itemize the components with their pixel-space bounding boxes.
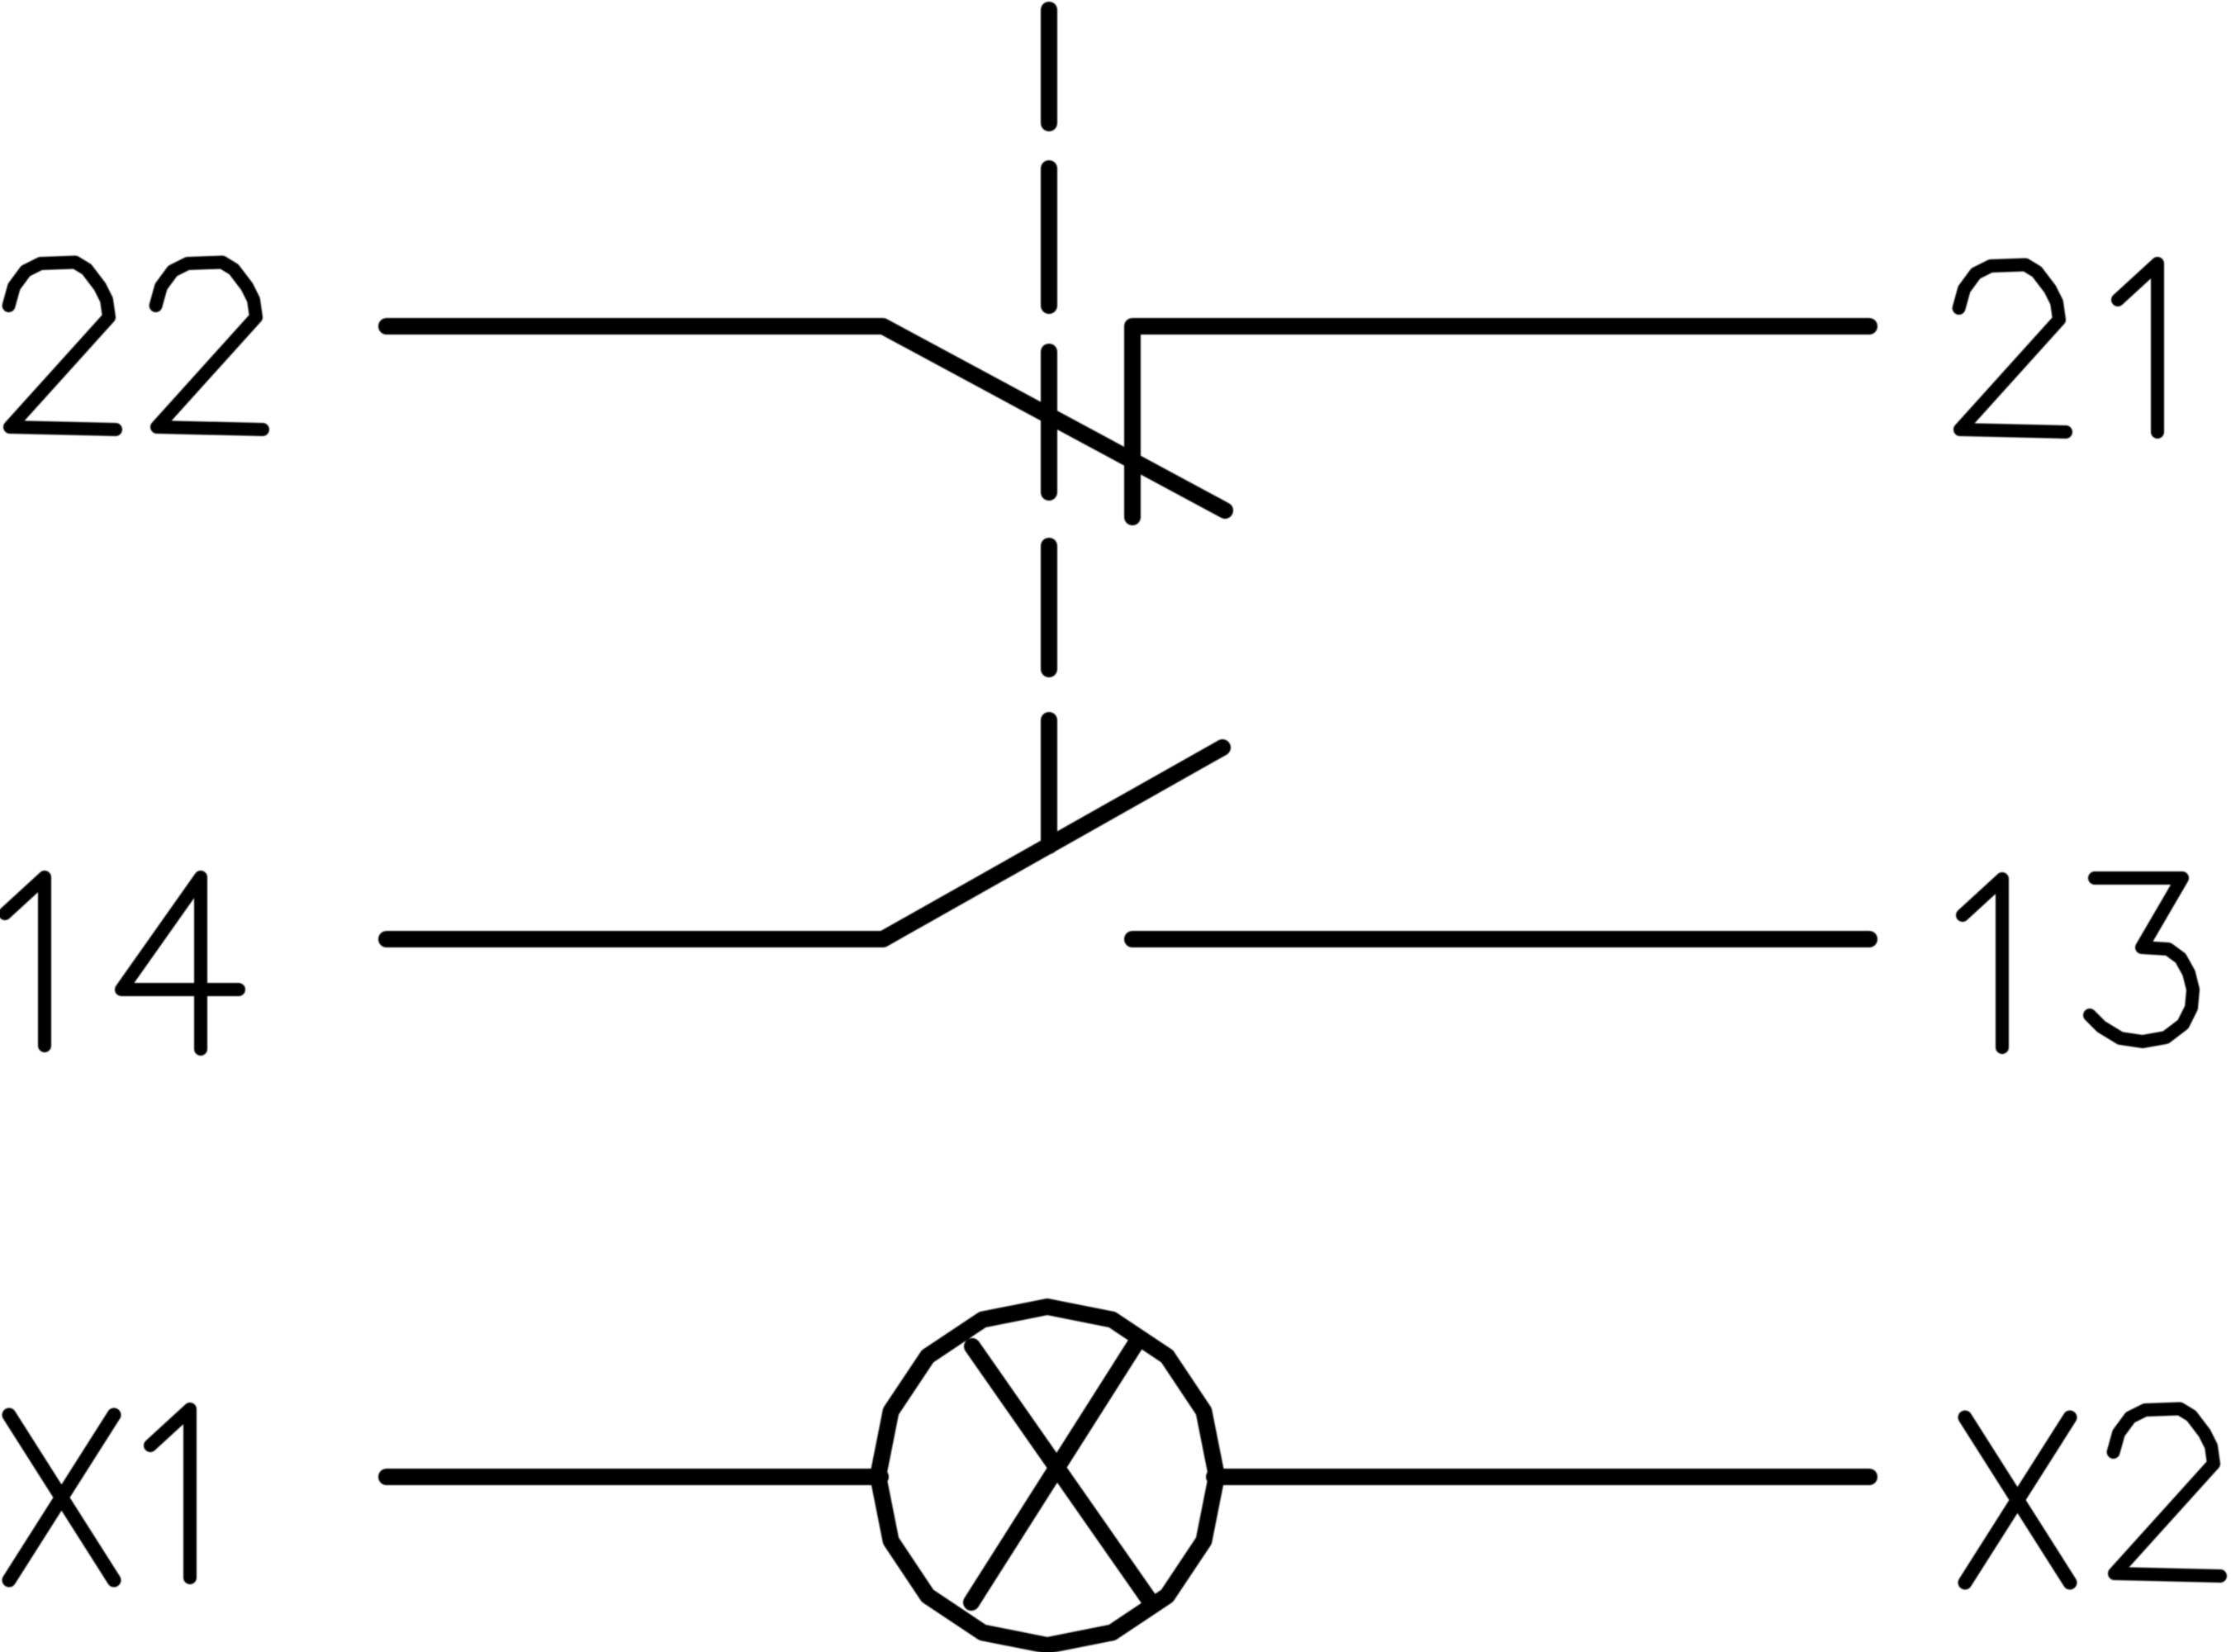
label 21 bbox=[1959, 263, 2157, 432]
NC contact fixed terminal (wire to 21 with vertical bar) bbox=[1132, 326, 1869, 517]
label 22 bbox=[9, 263, 263, 430]
lamp circle bbox=[878, 1307, 1217, 1645]
mechanical linkage dashed line bbox=[1041, 10, 1057, 846]
NO contact fixed terminal (wire to 13) bbox=[1132, 931, 1869, 947]
NO contact movable arm (wire from 14 with diagonal) bbox=[387, 748, 1222, 939]
lamp cross stroke NW-SE bbox=[972, 1346, 1148, 1598]
label X1 bbox=[9, 1409, 190, 1580]
label 13 bbox=[1963, 878, 2193, 1047]
label 14 bbox=[5, 877, 239, 1049]
lamp cross stroke NE-SW bbox=[971, 1342, 1137, 1602]
label X2 bbox=[1965, 1409, 2220, 1583]
wire lamp to X2 bbox=[1214, 1469, 1869, 1485]
wire X1 to lamp bbox=[387, 1469, 881, 1485]
NC contact movable arm (wire from 22 with diagonal) bbox=[387, 326, 1225, 510]
